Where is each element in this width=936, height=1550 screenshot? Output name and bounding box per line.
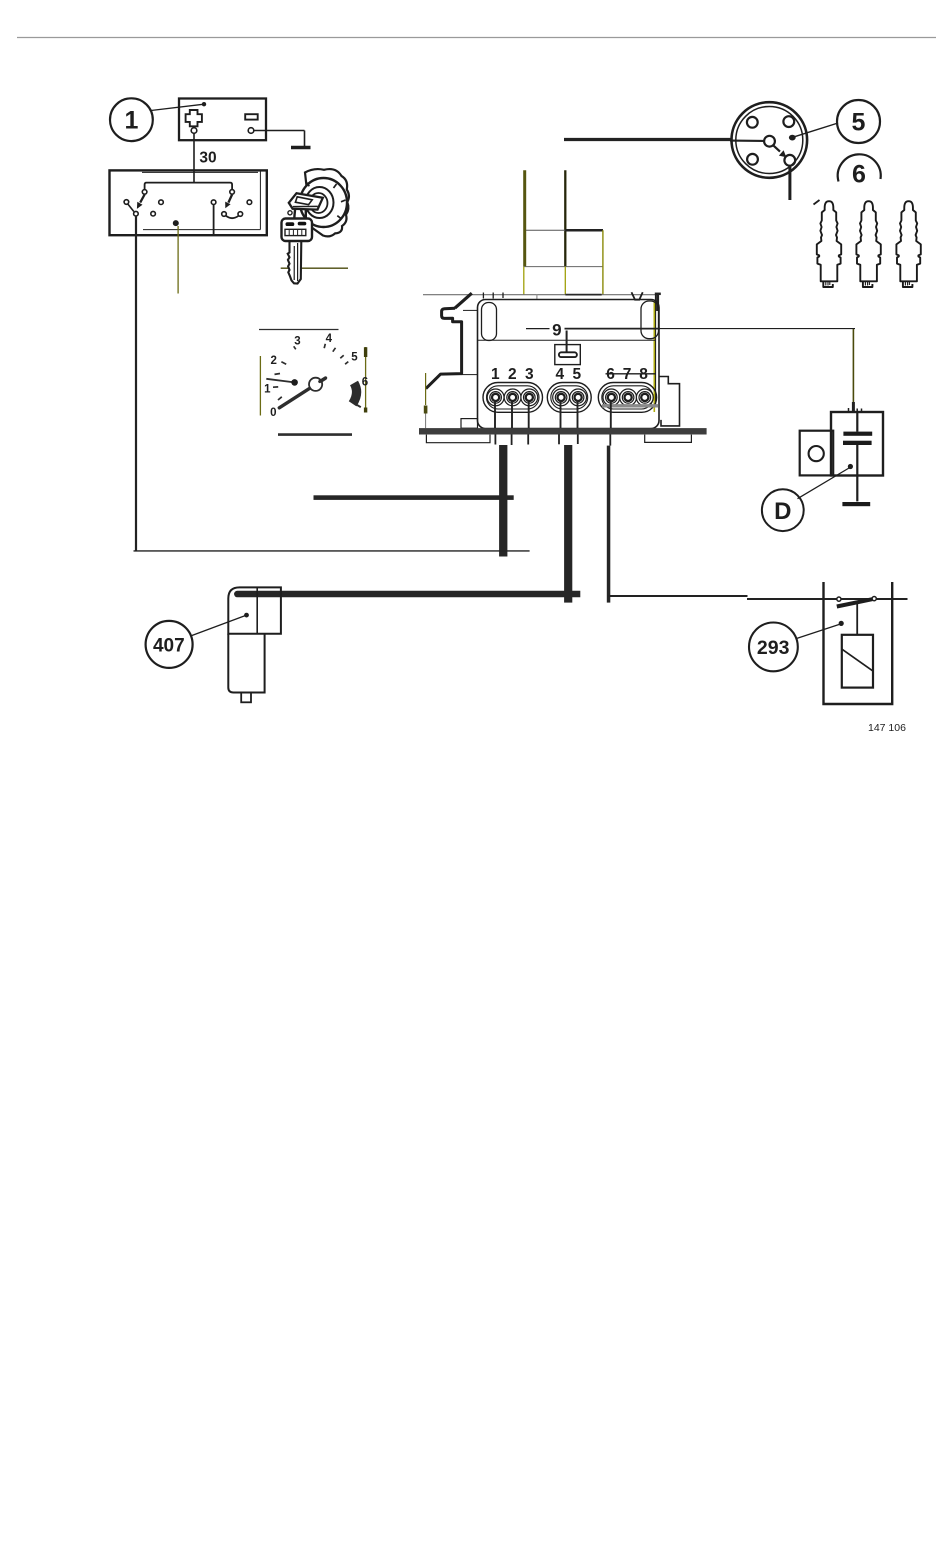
svg-text:6: 6 [362,376,368,388]
svg-text:1: 1 [491,366,500,383]
svg-text:9: 9 [552,321,561,340]
svg-text:1: 1 [264,383,271,395]
svg-text:6: 6 [606,366,615,383]
svg-text:8: 8 [639,366,648,383]
svg-text:0: 0 [270,407,276,419]
svg-text:7: 7 [623,366,632,383]
svg-text:293: 293 [757,637,790,659]
svg-text:4: 4 [555,366,564,383]
svg-text:5: 5 [572,366,581,383]
svg-text:2: 2 [508,366,517,383]
svg-text:3: 3 [294,335,300,347]
svg-text:30: 30 [199,150,216,167]
svg-text:2: 2 [270,355,276,367]
svg-text:407: 407 [153,635,185,656]
svg-text:D: D [774,498,791,525]
svg-text:3: 3 [525,366,534,383]
svg-text:5: 5 [351,351,358,363]
svg-text:4: 4 [326,333,333,345]
svg-text:5: 5 [852,109,866,137]
svg-text:6: 6 [852,161,866,189]
svg-text:147 106: 147 106 [868,722,906,734]
svg-text:1: 1 [124,107,138,135]
